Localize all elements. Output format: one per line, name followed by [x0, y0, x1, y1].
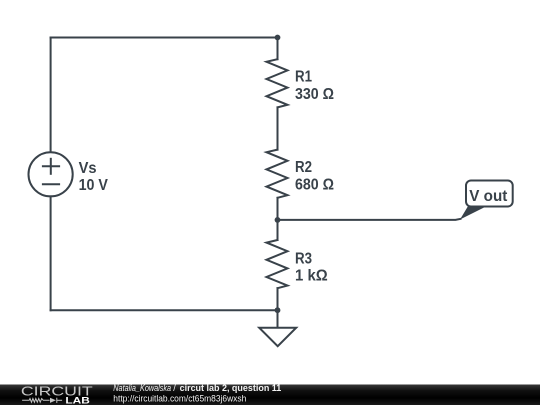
wire R2 to Vout node [277, 198, 279, 220]
voltage source Vs [28, 152, 72, 196]
net flag V out [460, 181, 513, 220]
svg-text:680 Ω: 680 Ω [295, 177, 334, 194]
node top junction [275, 35, 281, 41]
wire Vout node to R3 [277, 220, 279, 240]
wire left vertical upper [50, 38, 52, 153]
label node name V out [469, 188, 508, 205]
wire bottom horizontal [51, 309, 278, 311]
wire to ground [277, 310, 279, 328]
label R2 value 680 ohm [295, 177, 334, 194]
wire top horizontal [51, 37, 278, 39]
svg-text:R3: R3 [295, 250, 312, 267]
svg-text:R2: R2 [295, 159, 312, 176]
label R3 value 1 kohm [295, 268, 328, 285]
svg-text:Vs: Vs [79, 160, 97, 177]
svg-text:V out: V out [469, 188, 508, 205]
wire Vout horizontal [278, 219, 461, 220]
label R2 name [295, 159, 312, 176]
node Vout junction [275, 217, 281, 223]
wire R3 bottom lead [277, 288, 279, 310]
resistor R3 [267, 240, 288, 288]
wire left vertical lower [50, 196, 52, 310]
label Vs name [79, 160, 97, 177]
svg-text:R1: R1 [295, 69, 312, 86]
footer credit line [113, 383, 281, 403]
label R1 name [295, 69, 312, 86]
svg-text:LAB: LAB [65, 396, 89, 405]
svg-text:circut lab 2, question 11: circut lab 2, question 11 [180, 383, 282, 393]
svg-text:1 kΩ: 1 kΩ [295, 268, 328, 285]
svg-text:10 V: 10 V [79, 177, 109, 194]
label R3 name [295, 250, 312, 267]
footer bar [0, 385, 540, 405]
wire R1-R2 [277, 107, 279, 149]
ground [259, 328, 296, 347]
svg-text:http://circuitlab.com/ct65m83j: http://circuitlab.com/ct65m83j6wxsh [113, 394, 246, 404]
svg-text:330 Ω: 330 Ω [295, 86, 334, 103]
label Vs value 10 V [79, 177, 109, 194]
logo CircuitLab [21, 384, 93, 405]
resistor R2 [267, 150, 288, 198]
resistor R1 [267, 59, 288, 107]
wire R1 top lead [277, 38, 279, 60]
node bottom junction [275, 307, 281, 313]
svg-text:Natalia_Kowalska: Natalia_Kowalska [113, 383, 171, 393]
label R1 value 330 ohm [295, 86, 334, 103]
